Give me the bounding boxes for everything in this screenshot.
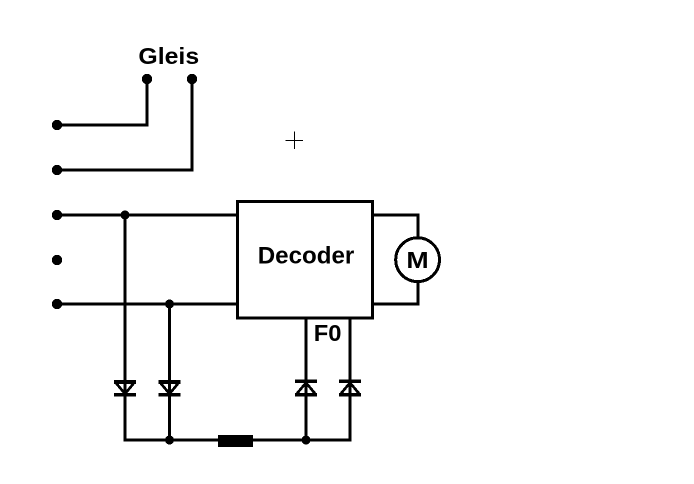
wire: decoder right top to motor (373, 215, 418, 240)
wire: decoder F0 left output down to diode D3 and rail (305, 318, 308, 440)
diode D3 (cathode up) (295, 381, 317, 395)
wire: input 5 to decoder left bottom (57, 303, 238, 306)
motor M1 circle (396, 238, 440, 282)
terminal: input 2 (52, 165, 62, 175)
junction: D3 at rail (302, 436, 311, 445)
decoder U1 box (238, 202, 373, 319)
wire: vertical from node A down to diode D1 and rail (124, 215, 127, 440)
resistor R1 (218, 435, 253, 447)
terminal: input 3 (52, 210, 62, 220)
diode D4 (cathode up) (339, 381, 361, 395)
node A junction (121, 211, 130, 220)
svg-text:Gleis: Gleis (138, 43, 199, 69)
bottom rail wire (124, 439, 352, 442)
wire: Gleis right terminal down and left to input 2 (57, 79, 192, 170)
svg-text:F0: F0 (314, 320, 342, 346)
diode D1 (cathode down) (114, 382, 136, 395)
terminal: input 4 (unconnected) (52, 255, 62, 265)
svg-text:M: M (406, 247, 428, 273)
plus mark (286, 132, 304, 150)
terminal: input 5 (52, 299, 62, 309)
terminal: Gleis right (187, 74, 197, 84)
wire: Gleis left terminal down and left to input 1 (57, 79, 147, 125)
wire: vertical from node B down to diode D2 and rail (168, 304, 171, 440)
wire: input 3 to decoder left top (57, 214, 238, 217)
junction: D2 at rail (165, 436, 174, 445)
node B junction (165, 300, 174, 309)
svg-text:Decoder: Decoder (258, 242, 355, 269)
wire: decoder right output down to diode D4 and rail (349, 318, 352, 440)
wire: motor bottom to decoder right bottom (373, 280, 418, 304)
diode D2 (cathode down) (159, 382, 181, 395)
terminal: input 1 (52, 120, 62, 130)
terminal: Gleis left (142, 74, 152, 84)
